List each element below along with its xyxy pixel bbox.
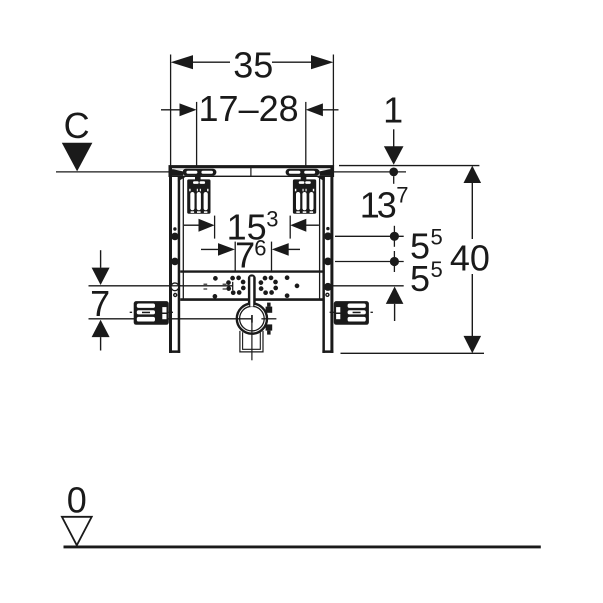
left rail inner line (182, 176, 184, 300)
svg-text:5: 5 (431, 257, 443, 282)
svg-text:17–28: 17–28 (199, 88, 299, 129)
dim 17-28 arrow left (180, 103, 197, 116)
side bracket right (330, 301, 373, 325)
level line 13.7 (335, 235, 404, 237)
marker C triangle (62, 143, 93, 172)
svg-text:35: 35 (233, 45, 273, 86)
dim 35 extension line right (332, 55, 334, 166)
dim 40 line (471, 183, 473, 239)
svg-text:40: 40 (450, 238, 490, 279)
section line C (right of plate) (333, 171, 406, 173)
dim 7 arrow down (100, 250, 102, 268)
bottom level line (341, 352, 485, 354)
svg-text:C: C (64, 105, 90, 146)
leader line lower (89, 318, 253, 320)
crossbar top edge (180, 270, 322, 272)
top plate outline (169, 166, 333, 177)
gusset right (316, 176, 325, 181)
hanger left (187, 175, 210, 214)
dim 40 arrow up (464, 166, 482, 183)
anchor level dot (389, 168, 398, 177)
rail donut right (325, 293, 329, 297)
dim 35 line (192, 61, 230, 63)
svg-text:0: 0 (67, 480, 87, 521)
level dot 2 (393, 226, 395, 247)
side bracket left (130, 301, 173, 325)
left rail bottom cap (169, 350, 180, 353)
dim 35 arrow right (311, 55, 333, 69)
section line C (left of plate) (56, 171, 170, 173)
level line 5.5 second (333, 285, 404, 287)
dim 35 arrow left (171, 55, 193, 69)
arrow up 5.5 (386, 287, 404, 304)
rail donut left (173, 293, 177, 297)
anchor slider right (286, 169, 320, 176)
right rail inner line (319, 176, 321, 300)
U bracket below pipe (240, 331, 263, 352)
hidden outline dashes (204, 284, 227, 289)
right rail bottom cap (322, 350, 333, 353)
gusset left (178, 176, 187, 181)
dim 17-28 line (161, 109, 181, 111)
top plate center joint (250, 167, 252, 177)
svg-text:5: 5 (431, 224, 443, 249)
svg-text:7: 7 (396, 182, 408, 207)
floor line (64, 545, 541, 548)
plate end cap right (320, 169, 334, 175)
dim 17-28 arrow right (306, 103, 323, 116)
svg-text:1: 1 (383, 89, 403, 130)
anchor slider left (182, 169, 216, 176)
clamp screws (266, 307, 273, 313)
dim 40 arrow down (464, 336, 482, 353)
dim 1 arrow down (384, 146, 404, 165)
rail rivet dots right (324, 227, 332, 291)
frame (89, 166, 373, 360)
dim 17-28 extension line left (196, 102, 198, 176)
dim 15.3 (184, 224, 200, 226)
top plate top edge (169, 166, 334, 169)
svg-text:6: 6 (254, 235, 266, 260)
svg-text:5: 5 (410, 258, 430, 299)
water pipe (248, 274, 256, 306)
left rail outer wall (169, 168, 172, 353)
leader line upper (89, 285, 233, 287)
left rail inner wall (178, 176, 181, 353)
level line 5.5 first (335, 261, 404, 263)
svg-text:7: 7 (90, 283, 110, 324)
floor triangle (62, 517, 92, 546)
rail ring dot left (171, 283, 179, 291)
dim 7 arrow up (92, 320, 110, 337)
level dot 3 (393, 251, 395, 272)
pipe axis line (251, 315, 253, 360)
dim 17-28 extension line right (305, 102, 307, 176)
top level line (339, 165, 479, 167)
dim 7.6 (201, 248, 219, 250)
rail rivet dots left (171, 227, 179, 265)
pipe clamp ring (237, 304, 267, 334)
crossbar holes (213, 275, 300, 298)
hanger right (293, 175, 316, 214)
plate end cap left (169, 169, 183, 175)
crossbar bottom edge (180, 298, 322, 301)
right rail inner wall (322, 176, 325, 353)
dim 35 extension line left (170, 55, 172, 166)
svg-text:13: 13 (360, 185, 396, 226)
dim 1 stem (393, 129, 395, 147)
svg-text:3: 3 (266, 206, 278, 231)
right rail outer wall (330, 168, 333, 353)
svg-text:7: 7 (235, 234, 255, 275)
